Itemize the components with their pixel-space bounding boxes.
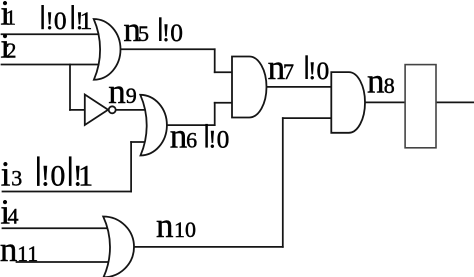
output box [405, 65, 436, 148]
svg-text:5: 5 [138, 21, 149, 46]
wire n6 output [165, 124, 215, 126]
wire i4 to n10 [3, 227, 109, 229]
svg-text:3: 3 [11, 166, 22, 191]
not-gate n9 bubble [109, 106, 116, 113]
wire n5 output [119, 48, 215, 50]
svg-text:!0: !0 [308, 56, 329, 85]
svg-text:4: 4 [8, 204, 19, 229]
wire n8 output to box [363, 101, 406, 103]
svg-text:n: n [367, 62, 385, 101]
wire stub to n8 lower input [283, 117, 333, 119]
svg-text:!0: !0 [208, 124, 229, 153]
svg-text:8: 8 [384, 73, 395, 98]
label |!0 |!1 row1 [41, 5, 44, 29]
wire i2 to n5 [2, 64, 101, 66]
svg-text:n: n [156, 206, 174, 245]
svg-text:10: 10 [174, 217, 196, 242]
svg-text:i: i [1, 155, 11, 194]
svg-text:n: n [170, 116, 188, 155]
or-gate n6 [140, 95, 167, 156]
wire stub to n7 lower input [215, 102, 234, 104]
wire stub to n7 upper input [215, 71, 234, 73]
svg-text:1: 1 [80, 6, 93, 35]
svg-text:6: 6 [186, 127, 197, 152]
not-gate n9 triangle [85, 95, 108, 126]
svg-text:!0: !0 [40, 160, 65, 193]
and-gate n7 [232, 57, 266, 118]
wire i3 vertical up [130, 142, 132, 192]
wire n6 vertical up [214, 103, 216, 125]
wire into n6 lower input [131, 141, 150, 143]
or-gate n5 [94, 19, 121, 80]
svg-text:9: 9 [126, 83, 137, 108]
wire n9 output to n6 [116, 109, 151, 111]
and-gate n8 [331, 72, 365, 133]
svg-text:n: n [108, 72, 126, 111]
wire i3 horizontal [3, 191, 132, 193]
wire n7 output to n8 [265, 86, 333, 88]
wire n11 to n10 [17, 261, 109, 263]
wire into n9 input [70, 109, 91, 111]
wire i2 branch down to n9 [69, 65, 71, 110]
wire n10 output [132, 246, 283, 248]
svg-text:2: 2 [6, 39, 17, 63]
svg-text:n: n [0, 230, 17, 269]
svg-text:7: 7 [283, 59, 294, 84]
wire i1 to n5 [2, 33, 101, 35]
wire n10 vertical up [282, 118, 284, 247]
svg-text:!0: !0 [45, 6, 66, 35]
wire n5 vertical down [214, 49, 216, 72]
svg-text:!0: !0 [162, 18, 183, 47]
svg-text:1: 1 [78, 160, 93, 193]
svg-text:11: 11 [17, 241, 38, 266]
wire box output to edge [436, 101, 474, 103]
or-gate n10 [103, 217, 134, 277]
